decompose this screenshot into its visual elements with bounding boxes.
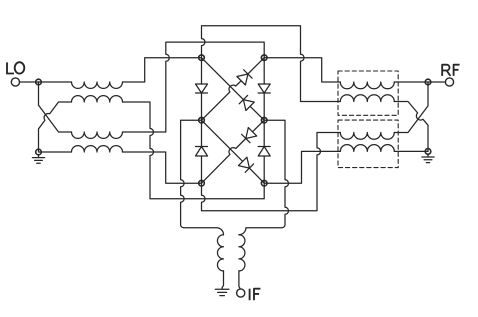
- node right ground: [425, 149, 431, 155]
- diode D1 left rail upper: [196, 84, 208, 93]
- wire node MR to IF transformer right winding (hops BR wire and BL rail): [239, 120, 289, 235]
- ground left: [32, 155, 44, 163]
- IF transformer right winding L10: [239, 235, 245, 271]
- transformer T4 primary winding L7: [340, 133, 394, 140]
- node LO: [36, 79, 42, 85]
- label RF: [442, 65, 459, 76]
- node MR: [261, 117, 267, 123]
- wire RF node to RF terminal: [428, 81, 445, 83]
- transformer T4 secondary winding L8: [340, 145, 394, 152]
- ground IF: [215, 289, 229, 295]
- ground right: [422, 154, 434, 162]
- diode D5 on diagonal TL to MR (points to TL): [202, 58, 265, 120]
- wire left ground node to T2 secondary: [39, 151, 72, 153]
- node ML: [199, 117, 205, 123]
- node left ground: [36, 149, 42, 155]
- wire RF node vertical and diagonal to L7: [394, 82, 428, 133]
- dashed box around T3: [338, 71, 398, 115]
- wire left ground vertical: [38, 129, 40, 152]
- node BR: [261, 180, 267, 186]
- dashed box around T4: [338, 120, 398, 168]
- transformer T3 secondary winding L6: [340, 95, 394, 102]
- wire LO node vertical: [38, 82, 40, 105]
- wire LO node to T1 primary: [39, 81, 72, 83]
- node BL: [199, 180, 205, 186]
- wire left rail middle segment: [201, 93, 203, 147]
- transformer T1 primary winding L1: [72, 82, 123, 88]
- diode D4 right rail lower: [258, 147, 270, 157]
- IF transformer left winding L9: [217, 235, 223, 271]
- wire L1 to node TL: [123, 58, 202, 82]
- wire L3 to node TR upper rail (vertical hops TL wire): [123, 42, 265, 132]
- wire right rail bottom segment: [263, 156, 265, 183]
- node TR: [261, 55, 267, 61]
- wire IF right winding to IF terminal: [239, 271, 240, 289]
- wire left rail bottom segment: [201, 156, 203, 183]
- wire node ML to IF transformer left winding (hops L4-BL wire and L2-BR rail): [181, 120, 224, 235]
- port terminal RF: [445, 78, 453, 86]
- wire right rail upper segment: [263, 58, 265, 84]
- wire right ground diagonal to L6 (hops RF diagonal): [394, 102, 428, 152]
- diode D8 on diagonal MR to BL (points to BL, hops diagonal D7 wire): [202, 120, 265, 183]
- wire L2 to node BR lower rail (vertical hops L3 and L4 leads): [123, 102, 265, 199]
- port terminal LO: [11, 78, 19, 86]
- diode D2 left rail lower: [196, 147, 208, 157]
- diode D7 on diagonal ML to BR (points to BR): [202, 120, 265, 183]
- label LO: [6, 62, 24, 73]
- wire left rail upper segment: [201, 58, 203, 84]
- node TL: [199, 55, 205, 61]
- wire left ground diagonal to T1 secondary (hops over LO diagonal): [39, 102, 72, 129]
- wire IF left winding to ground: [222, 271, 223, 289]
- wire LO terminal to LO node: [20, 81, 39, 83]
- transformer T2 primary winding L3: [72, 132, 123, 138]
- transformer T2 secondary winding L4: [72, 146, 123, 152]
- transformer T3 primary winding L5: [340, 82, 394, 89]
- wire node TL to T4 secondary via outer top rail (hops inner rail and TR wire): [202, 26, 341, 102]
- label IF: [250, 289, 261, 301]
- node RF: [425, 79, 431, 85]
- wire node TR to T3 primary: [264, 58, 340, 82]
- transformer T1 secondary winding L2: [72, 96, 123, 102]
- diode D3 right rail upper: [258, 84, 270, 93]
- wire L4 to node BL: [123, 152, 202, 183]
- port terminal IF: [237, 289, 245, 297]
- wire right rail middle segment: [263, 93, 265, 147]
- wire L5 to RF node: [394, 81, 428, 83]
- wire LO diagonal to T2 primary: [39, 105, 72, 132]
- wire L8 to right ground node: [394, 150, 428, 152]
- diode D6 on diagonal ML to TR (points to TR, hops diagonal D5 wire): [202, 58, 265, 120]
- wire node BR to T4 secondary: [264, 151, 340, 183]
- wire node BL to T4 primary lower rail (vertical hops BR-L8 wire): [202, 133, 341, 211]
